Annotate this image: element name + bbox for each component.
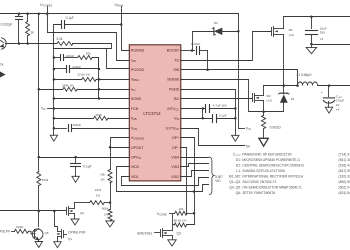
svg-text:(×2): (×2) — [289, 33, 294, 37]
svg-text:VOSENSE: VOSENSE — [131, 136, 144, 141]
wire VCORE out — [318, 85, 350, 87]
ground SGND bus — [50, 135, 57, 141]
wire SENSE — [181, 80, 264, 112]
svg-text:ZETEX FMMT3906TA: ZETEX FMMT3906TA — [242, 191, 276, 195]
junction OP+ VID0 — [193, 190, 196, 193]
svg-text:VID1: VID1 — [131, 175, 139, 179]
svg-text:FCB: FCB — [131, 107, 139, 111]
svg-text:Q4, Q5:: Q4, Q5: — [229, 186, 241, 190]
ground Q1 — [54, 242, 61, 248]
ground bypass caps — [232, 135, 239, 141]
svg-text:10k: 10k — [179, 207, 184, 211]
svg-text:PANASONIC SP EEFUD0D271R: PANASONIC SP EEFUD0D271R — [242, 153, 292, 157]
svg-text:D2: D2 — [214, 21, 218, 25]
wire comp to PGOOD row — [107, 49, 130, 69]
svg-text:L1:: L1: — [236, 169, 241, 173]
node VIN label — [239, 128, 245, 130]
svg-text:DPRSLPVR: DPRSLPVR — [68, 230, 86, 234]
wire BOOST — [181, 50, 195, 52]
wire VIN pin — [181, 118, 213, 120]
svg-text:BG: BG — [174, 97, 179, 101]
transistor Q6 (partial, edge) — [2, 38, 7, 49]
svg-text:0.1µF: 0.1µF — [83, 164, 91, 168]
wire VRUN to RUN/SS — [122, 7, 130, 51]
svg-text:4.7µF 16V: 4.7µF 16V — [213, 104, 227, 108]
svg-text:80.6k 1%: 80.6k 1% — [174, 219, 187, 223]
wire VID3 — [181, 164, 209, 167]
svg-text:Q6:: Q6: — [236, 191, 241, 195]
svg-text:MICROSEMI UPS840 POWERMITE-3: MICROSEMI UPS840 POWERMITE-3 — [242, 158, 299, 162]
wire OP+ to sense node — [181, 138, 195, 214]
wire SW — [181, 70, 298, 86]
junction Q2 gate wire — [38, 210, 41, 213]
wire VID2 — [181, 171, 209, 177]
svg-text:SENSE: SENSE — [167, 78, 180, 82]
svg-text:300k: 300k — [95, 113, 102, 117]
svg-text:Q2: Q2 — [80, 211, 84, 215]
wire EXTVCC to 5V — [181, 129, 245, 146]
wire comp bus — [98, 58, 100, 99]
junction sense node — [262, 110, 265, 113]
wire switch rail — [264, 85, 298, 87]
svg-text:SUMIDA CEP125-4712T006: SUMIDA CEP125-4712T006 — [242, 169, 285, 173]
svg-text:VID0: VID0 — [131, 165, 139, 169]
svg-text:VID3: VID3 — [171, 165, 179, 169]
wire SGND row — [54, 98, 130, 100]
junction ITH node — [98, 68, 101, 71]
wire OP- to divider — [181, 148, 187, 214]
svg-text:PGOOD: PGOOD — [131, 68, 145, 72]
svg-text:10k: 10k — [100, 173, 105, 177]
wire FCB row — [54, 108, 130, 110]
svg-text:(516) 435-1110: (516) 435-1110 — [339, 164, 350, 168]
svg-text:RUN/SS: RUN/SS — [131, 49, 145, 53]
svg-text:PGND: PGND — [169, 87, 180, 91]
svg-text:VCORE: VCORE — [157, 212, 167, 217]
junction RUN/SS cap — [120, 23, 123, 26]
wire VIN input rail — [284, 16, 350, 18]
transistor M1 IRF7811A — [271, 28, 273, 36]
wire TG — [181, 32, 272, 61]
svg-text:CENTRAL SEMICONDUCTOR CMDSH3: CENTRAL SEMICONDUCTOR CMDSH3 — [242, 164, 303, 168]
svg-text:0.003Ω: 0.003Ω — [270, 126, 281, 130]
svg-text:D1:: D1: — [236, 158, 241, 162]
svg-text:VID4: VID4 — [171, 155, 179, 159]
wire input gnd rail — [312, 44, 350, 46]
svg-text:VID: VID — [215, 179, 221, 183]
svg-text:22.6k 1%: 22.6k 1% — [77, 73, 90, 77]
ground Q3 — [168, 240, 176, 246]
wire BG — [181, 98, 253, 100]
svg-text:×4: ×4 — [320, 37, 324, 41]
wire Q1 drain — [55, 211, 58, 229]
wire VOSENSE to OPOUT tie — [111, 138, 130, 148]
ground COUT — [325, 107, 332, 113]
svg-text:D2:: D2: — [236, 164, 241, 168]
junction top rail — [38, 12, 41, 15]
svg-text:OPOUT: OPOUT — [131, 146, 144, 150]
wire INTVCC-VIN tie — [202, 109, 204, 119]
svg-text:D1: D1 — [291, 97, 295, 101]
wire VID0 wrap — [117, 167, 209, 192]
svg-text:Q3: Q3 — [177, 232, 181, 236]
ground Q5 — [35, 242, 42, 248]
wire lower-left rail — [6, 43, 57, 45]
svg-text:1%: 1% — [100, 178, 105, 182]
svg-text:VRNG: VRNG — [131, 78, 139, 83]
svg-text:×4: ×4 — [336, 107, 340, 111]
wire INTVCC — [181, 108, 206, 110]
svg-text:DPSLP#: DPSLP# — [0, 230, 10, 234]
brace 5-BIT VID — [209, 157, 214, 195]
capacitor 10uF input — [311, 17, 313, 29]
svg-text:100pF: 100pF — [73, 123, 82, 127]
svg-text:100k: 100k — [42, 178, 49, 182]
wire SGND bus — [53, 49, 55, 136]
wire comp-box top — [54, 48, 112, 50]
svg-text:VID2: VID2 — [171, 175, 179, 179]
op-amp U1 LTC3714 controller — [129, 45, 181, 181]
svg-text:OP+: OP+ — [172, 136, 179, 140]
svg-text:TG: TG — [174, 58, 179, 62]
svg-text:35V: 35V — [320, 31, 325, 35]
svg-text:SGND: SGND — [131, 97, 142, 101]
wire Q2 gate row — [1, 210, 67, 212]
wire boost cap to SW — [207, 51, 209, 70]
svg-text:1k: 1k — [30, 30, 34, 34]
svg-text:5V: 5V — [246, 144, 251, 148]
terminal wedge (edge) — [0, 72, 6, 78]
svg-text:100Ω: 100Ω — [16, 225, 24, 229]
svg-text:0.022µF: 0.022µF — [1, 22, 13, 26]
svg-text:GMUXSEL: GMUXSEL — [137, 232, 153, 236]
svg-text:3.3k: 3.3k — [56, 37, 62, 41]
svg-text:Q5: Q5 — [45, 231, 49, 235]
svg-text:(602) 244-6600: (602) 244-6600 — [339, 186, 350, 190]
svg-text:OP−: OP− — [172, 146, 179, 150]
svg-text:M1, M2:: M1, M2: — [229, 175, 241, 179]
svg-text:INTVCC: INTVCC — [167, 107, 179, 112]
svg-text:ON SEMICONDUCTOR MMBT3904LT1: ON SEMICONDUCTOR MMBT3904LT1 — [242, 186, 302, 190]
svg-text:(631) 543-7100: (631) 543-7100 — [339, 191, 350, 195]
transistor Q1 2N7002 — [63, 231, 65, 238]
wire VCORE2 top rail — [1, 13, 239, 15]
svg-text:VIN: VIN — [246, 127, 251, 132]
svg-text:VIN: VIN — [174, 117, 179, 122]
svg-text:ITH: ITH — [131, 87, 136, 92]
transistor Q2 2N7002 — [66, 208, 68, 215]
svg-text:(800) 554-5565: (800) 554-5565 — [339, 180, 350, 184]
transistor Q5 MMBT3904 — [32, 229, 43, 240]
svg-text:+: + — [321, 91, 323, 95]
svg-text:1k: 1k — [0, 62, 4, 66]
svg-text:(714) 373-7366: (714) 373-7366 — [339, 153, 350, 157]
svg-text:(310) 322-3331: (310) 322-3331 — [339, 175, 350, 179]
wire PGND to gnd bus — [181, 90, 236, 136]
ground 806k — [106, 221, 114, 227]
svg-text:1%: 1% — [96, 194, 101, 198]
svg-text:BOOST: BOOST — [167, 49, 180, 53]
svg-text:(541) 382-8028: (541) 382-8028 — [339, 158, 350, 162]
wire VID1 wrap — [122, 177, 209, 186]
svg-text:0.1µF: 0.1µF — [219, 113, 227, 117]
ground OPVIN cap — [72, 176, 79, 182]
ground Q2 — [71, 219, 79, 225]
svg-text:ION: ION — [131, 58, 136, 63]
svg-text:0.1µF: 0.1µF — [66, 16, 74, 20]
wire VIN vertical — [238, 14, 240, 129]
wire OPOUT row — [111, 147, 130, 149]
wire VCORE2 drop to VON row — [48, 14, 130, 61]
svg-text:INTERNATIONAL RECTIFIER IRF781: INTERNATIONAL RECTIFIER IRF7811A — [242, 175, 303, 179]
wire OPVIN row — [39, 157, 130, 159]
svg-text:M1: M1 — [289, 28, 293, 32]
svg-text:VFB: VFB — [131, 117, 137, 122]
svg-text:237k: 237k — [95, 188, 102, 192]
svg-text:Q1: Q1 — [68, 237, 72, 241]
ground input cap — [306, 47, 317, 53]
wire long VCORE2-net vertical — [38, 14, 40, 172]
wire VID4 — [181, 157, 209, 159]
transistor M2 IRF7811A — [252, 94, 254, 102]
svg-text:M2: M2 — [266, 94, 270, 98]
svg-text:EXTVCC: EXTVCC — [166, 126, 179, 131]
ground sense — [259, 138, 268, 146]
svg-text:LTC3714: LTC3714 — [143, 111, 161, 116]
svg-text:Q1–Q3:: Q1–Q3: — [229, 180, 241, 184]
svg-text:L1 0.68µH: L1 0.68µH — [297, 73, 312, 77]
svg-text:VCORE2: VCORE2 — [40, 2, 53, 8]
svg-text:OPVIN: OPVIN — [131, 155, 141, 160]
svg-text:SILICONIX 2N7002-T1: SILICONIX 2N7002-T1 — [242, 180, 276, 184]
svg-text:SW: SW — [173, 68, 179, 72]
svg-text:(×3): (×3) — [266, 99, 271, 103]
svg-text:VON: VON — [131, 126, 137, 131]
svg-text:(847) 956-0666: (847) 956-0666 — [339, 169, 350, 173]
